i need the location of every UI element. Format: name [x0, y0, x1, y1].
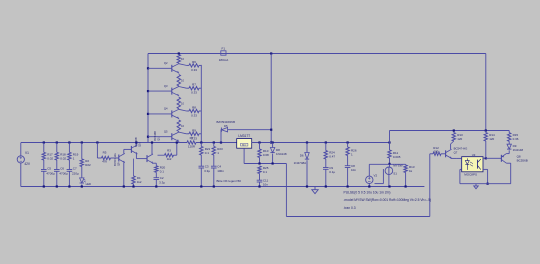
- wire R5 to Q9 base: [111, 157, 119, 159]
- wire LED bottom: [81, 184, 83, 186]
- svg-text:Q9: Q9: [117, 162, 121, 166]
- svg-text:Q5: Q5: [164, 130, 168, 134]
- wire ADJ down: [243, 148, 245, 163]
- node R3 rail: [176, 141, 178, 143]
- wire R3 tie: [176, 143, 178, 156]
- svg-text:Bitte OK legen=50: Bitte OK legen=50: [217, 179, 242, 183]
- svg-text:R6: R6: [192, 60, 196, 64]
- wire D5 to V-col: [228, 129, 272, 131]
- wire R22 top: [213, 143, 215, 147]
- node C7 gnd: [68, 185, 70, 187]
- node S1 gnd: [388, 185, 390, 187]
- wire R25-C11: [259, 174, 261, 181]
- node base 2: [147, 90, 149, 92]
- svg-text:0.68: 0.68: [263, 153, 269, 157]
- node C8 gnd: [347, 185, 349, 187]
- wire +rail left: [21, 142, 187, 144]
- svg-text:C2: C2: [160, 176, 164, 180]
- wire Q7 collector: [450, 144, 452, 149]
- svg-text:R9: R9: [192, 128, 196, 132]
- node LED gnd: [81, 185, 83, 187]
- wire R2-LED: [81, 167, 83, 178]
- node R19 top: [68, 141, 70, 143]
- wire D9-Q8: [508, 150, 510, 153]
- wire R17 top: [43, 143, 45, 153]
- resistor R13: [452, 133, 455, 141]
- wire Q10 collector: [135, 143, 137, 145]
- wire base Q5: [148, 136, 172, 138]
- resistor R5: [102, 156, 111, 159]
- wire Q10 to Q11 base: [136, 158, 147, 160]
- wire C5 bottom: [43, 171, 45, 186]
- capacitor C4: [211, 165, 217, 167]
- wire ctrl return h: [375, 183, 384, 185]
- wire R7 right: [199, 87, 201, 89]
- junction: [270, 52, 272, 54]
- svg-text:PULSE(0 5 0.5 10u 10u 1m 2m): PULSE(0 5 0.5 10u 10u 1m 2m): [344, 191, 391, 195]
- wire D8 top: [272, 143, 274, 148]
- wire R11-S1: [389, 158, 391, 167]
- wire R9 left: [186, 133, 189, 135]
- wire C6 bottom: [56, 171, 58, 186]
- wire to R20: [155, 163, 157, 166]
- transistor Q3: [171, 88, 173, 95]
- svg-text:0.33: 0.33: [191, 114, 197, 118]
- wire R26 top: [347, 143, 349, 148]
- svg-text:0.47: 0.47: [329, 155, 335, 159]
- transistor Q9: [118, 155, 120, 162]
- svg-text:D5: D5: [224, 124, 228, 128]
- wire Q10 emitter: [135, 154, 137, 159]
- svg-text:0.36: 0.36: [513, 137, 519, 141]
- wire R20-C2: [155, 172, 157, 177]
- wire C7 bottom: [68, 171, 70, 186]
- node opto emitter gnd: [487, 183, 489, 185]
- wire R14 bottom: [485, 141, 487, 158]
- capacitor C5: [41, 169, 47, 171]
- diode D8: [270, 148, 274, 153]
- wire R4 gnd: [133, 184, 135, 187]
- wire opto cathode: [460, 168, 462, 170]
- node V2 gnd: [368, 185, 370, 187]
- resistor R6: [189, 64, 199, 67]
- wire R18-C6: [56, 160, 58, 169]
- node Q10 collector: [135, 141, 137, 143]
- wire opto anode: [457, 157, 462, 159]
- resistor R7 120R inline: [187, 141, 196, 144]
- resistor R26: [346, 147, 349, 156]
- wire R24 top: [325, 143, 327, 151]
- wire to R4: [133, 159, 135, 176]
- svg-text:Q10: Q10: [138, 142, 142, 147]
- wire top +42V rail: [148, 53, 486, 55]
- wire S1 bottom: [388, 175, 390, 187]
- wire emitter stub Q2: [178, 72, 180, 75]
- resistor R7: [189, 87, 199, 90]
- capacitor C7: [67, 169, 73, 171]
- wire D5 up: [220, 130, 222, 143]
- wire base Q2: [148, 67, 172, 69]
- wire V2 top: [368, 164, 370, 176]
- wire R23 gnd: [405, 173, 407, 187]
- junction: [178, 52, 180, 54]
- node C11 gnd: [258, 185, 260, 187]
- wire C4 gnd: [213, 168, 215, 187]
- wire opto emitter down: [487, 169, 489, 183]
- node C2 gnd: [155, 185, 157, 187]
- wire +rail to U1: [196, 142, 237, 144]
- resistor R14: [484, 133, 487, 141]
- wire emitter stub Q5: [178, 140, 180, 143]
- wire R24-C9: [325, 159, 327, 167]
- diode D9: [507, 144, 511, 149]
- svg-text:10n: 10n: [351, 168, 356, 172]
- svg-text:1k: 1k: [409, 169, 413, 173]
- svg-text:3.3µ: 3.3µ: [159, 180, 165, 184]
- node D5 anode: [220, 141, 222, 143]
- wire emitter stub Q4: [178, 118, 180, 121]
- wire R21-C3: [200, 155, 202, 166]
- svg-text:.model MYSW SW(Ron=0.001 Roff=: .model MYSW SW(Ron=0.001 Roff=100Meg Vt=…: [344, 198, 432, 202]
- wire rail up corner: [389, 131, 391, 143]
- svg-text:120: 120: [457, 137, 462, 141]
- wire D8 bottom: [272, 154, 274, 164]
- node D6 top: [306, 141, 308, 143]
- node R21 top: [200, 141, 202, 143]
- wire Q9-Q10 link: [124, 148, 132, 150]
- resistor R15: [508, 133, 511, 142]
- wire to R5: [97, 157, 101, 159]
- svg-text:0.1: 0.1: [160, 170, 165, 174]
- node C8 col top: [347, 141, 349, 143]
- ground: [314, 187, 316, 190]
- wire top rail drop mid: [270, 54, 272, 143]
- svg-text:R3: R3: [167, 149, 171, 153]
- svg-text:0.1: 0.1: [205, 151, 210, 155]
- voltage source V2: [366, 176, 373, 183]
- node R2 top: [81, 141, 83, 143]
- svg-text:42V: 42V: [24, 162, 31, 166]
- capacitor C3: [199, 165, 205, 167]
- wire C8 gnd: [347, 168, 349, 187]
- wire feedback up: [429, 154, 431, 217]
- wire collector stub Q5: [178, 131, 180, 134]
- resistor R24: [324, 151, 327, 160]
- resistor R21: [200, 146, 203, 155]
- transistor Q8: [500, 155, 502, 162]
- node R13 top: [453, 129, 455, 131]
- wire Q11 emitter: [152, 162, 156, 164]
- wire R6 right: [199, 64, 201, 66]
- resistor R8: [189, 109, 199, 112]
- node C9 gnd: [325, 185, 327, 187]
- node D8 top: [272, 141, 274, 143]
- capacitor C9: [323, 167, 329, 169]
- wire R8 left: [186, 110, 189, 112]
- wire C9 gnd: [325, 169, 327, 186]
- wire Q11 collector: [151, 143, 153, 155]
- capacitor C6: [54, 169, 60, 171]
- svg-text:120: 120: [489, 137, 494, 141]
- svg-text:BC547-HG: BC547-HG: [113, 153, 117, 166]
- wire R19-C7: [68, 160, 70, 169]
- resistor R4: [132, 176, 135, 184]
- svg-text:Q4: Q4: [164, 107, 168, 111]
- svg-text:3.3µ: 3.3µ: [204, 169, 210, 173]
- wire ctrl to S1: [369, 163, 389, 165]
- wire feedback bottom: [286, 216, 429, 218]
- node R23 gnd: [405, 185, 407, 187]
- wire opto collector: [483, 157, 486, 159]
- resistor R3 1k2: [165, 154, 174, 157]
- wire opto emitter: [483, 168, 488, 170]
- svg-text:1N4148: 1N4148: [513, 148, 524, 152]
- svg-text:LM317T: LM317T: [238, 134, 250, 138]
- svg-text:1k2: 1k2: [137, 180, 142, 184]
- fuse F1: [221, 51, 226, 55]
- node base 3: [147, 113, 149, 115]
- svg-text:R22: R22: [85, 163, 91, 167]
- svg-text:F1: F1: [222, 46, 226, 50]
- capacitor C2: [154, 177, 160, 179]
- svg-text:220µ: 220µ: [72, 171, 79, 175]
- node R4 gnd: [132, 185, 134, 187]
- node R17 top: [43, 141, 45, 143]
- regulator U1 LM317: [237, 139, 252, 149]
- svg-text:0.005: 0.005: [393, 155, 401, 159]
- resistor R9: [189, 132, 199, 135]
- svg-text:ADJ: ADJ: [242, 144, 246, 147]
- svg-text:U3: U3: [472, 153, 476, 157]
- svg-text:C7: C7: [73, 166, 77, 170]
- wire R3 right: [174, 154, 177, 156]
- svg-text:4700µ: 4700µ: [46, 171, 55, 175]
- wire to R12: [430, 153, 433, 155]
- wire chain bottom: [178, 141, 180, 144]
- wire Q8 collector down: [510, 163, 512, 184]
- svg-text:0.02: 0.02: [60, 156, 66, 160]
- wire Q9 collector up: [123, 149, 125, 153]
- wire R15 top: [508, 131, 510, 133]
- svg-text:1k2: 1k2: [167, 157, 172, 161]
- transistor Q4: [171, 110, 173, 117]
- svg-text:4700µ: 4700µ: [59, 171, 68, 175]
- wire emitter stub Q3: [178, 95, 180, 98]
- resistor R18: [55, 152, 58, 160]
- switch S1: [385, 167, 393, 175]
- wire base Q3: [148, 90, 172, 92]
- wire R7 left: [186, 87, 189, 89]
- wire C3 gnd: [200, 168, 202, 187]
- wire R23 top: [405, 163, 407, 166]
- wire right gnd net: [460, 183, 511, 185]
- transistor Q10: [130, 146, 132, 153]
- resistor R17: [42, 152, 45, 160]
- resistor R13 1k: [404, 165, 407, 173]
- zener D6: [305, 153, 309, 160]
- svg-text:10: 10: [181, 101, 184, 105]
- svg-text:S1: S1: [393, 171, 397, 175]
- svg-text:V2: V2: [374, 174, 378, 178]
- wire right feed rail: [390, 130, 510, 132]
- wire to R3: [158, 154, 165, 156]
- node mid drop: [270, 141, 272, 143]
- svg-text:BC556B: BC556B: [517, 159, 528, 163]
- node C3 gnd: [200, 185, 202, 187]
- svg-text:120R: 120R: [188, 145, 196, 149]
- svg-text:LED: LED: [86, 182, 91, 186]
- node right feed: [485, 129, 487, 131]
- node D6 gnd: [306, 185, 308, 187]
- node base 1: [147, 67, 149, 69]
- wire V1 top: [20, 143, 22, 156]
- node R18 top: [56, 141, 58, 143]
- resistor R10: [258, 149, 261, 158]
- wire feedback down: [285, 164, 287, 217]
- wire to Q8 base: [486, 157, 502, 159]
- wire R22-C4: [213, 155, 215, 166]
- resistor R20: [155, 166, 158, 173]
- wire D6 gnd: [306, 160, 308, 186]
- node R24 top: [325, 141, 327, 143]
- wire to R8: [179, 109, 187, 111]
- svg-text:MOC8PS: MOC8PS: [464, 173, 477, 177]
- node C5 gnd: [43, 185, 45, 187]
- svg-text:0.33: 0.33: [191, 68, 197, 72]
- svg-text:0.02: 0.02: [47, 156, 53, 160]
- svg-text:10: 10: [181, 57, 184, 61]
- svg-text:1N4148: 1N4148: [276, 152, 287, 156]
- svg-text:Q7: Q7: [454, 151, 458, 155]
- wire R15-D9: [508, 141, 510, 144]
- wire R12 to Q7: [441, 153, 446, 155]
- wire to R13: [451, 141, 454, 144]
- resistor R11: [388, 150, 391, 158]
- capacitor C8: [345, 165, 351, 167]
- node R10-adj: [258, 162, 260, 164]
- resistor chain 2: [177, 75, 180, 86]
- wire R9 right: [199, 133, 201, 135]
- wire R26-C8: [347, 156, 349, 166]
- node R22 top: [213, 141, 215, 143]
- wire R14 top: [485, 131, 487, 133]
- diode D5: [221, 128, 227, 132]
- wire ground rail: [21, 186, 425, 188]
- node C6 gnd: [56, 185, 58, 187]
- node R5 top: [96, 141, 98, 143]
- wire V2 bottom: [368, 184, 370, 187]
- wire R6 left: [186, 64, 189, 66]
- LED D2: [80, 178, 84, 183]
- svg-text:D6: D6: [300, 153, 304, 157]
- svg-text:BC546B: BC546B: [153, 131, 157, 141]
- wire D6 top: [306, 143, 308, 153]
- transistor Q5: [171, 133, 173, 140]
- svg-text:47k: 47k: [102, 160, 107, 164]
- svg-text:10: 10: [181, 124, 184, 128]
- svg-text:Q3: Q3: [164, 84, 168, 88]
- wire R10 bottom: [259, 158, 261, 164]
- svg-text:C6: C6: [60, 166, 64, 170]
- transistor Q7: [445, 150, 447, 157]
- capacitor C11: [257, 179, 263, 181]
- wire R5 drop: [96, 143, 98, 159]
- transistor Q11: [146, 155, 148, 162]
- svg-text:R8: R8: [192, 106, 196, 110]
- wire ladder base rail: [147, 54, 149, 143]
- wire R8 right: [199, 110, 201, 112]
- wire V1 bottom: [20, 163, 22, 187]
- wire R10 top: [259, 143, 261, 150]
- wire output rail: [252, 142, 390, 144]
- node C4 gnd: [213, 185, 215, 187]
- node Q11 collector: [151, 141, 153, 143]
- svg-text:10: 10: [181, 79, 184, 83]
- wire R21 top: [200, 143, 202, 147]
- wire ctrl to R23: [390, 163, 406, 165]
- ground right: [475, 184, 477, 186]
- wire R17-C5: [43, 160, 45, 169]
- optocoupler U3: [462, 157, 483, 172]
- node opto collector: [485, 157, 487, 159]
- wire top rail right drop: [485, 54, 487, 131]
- svg-text:180: 180: [434, 149, 439, 153]
- svg-text:C5: C5: [47, 166, 51, 170]
- node R10 top: [258, 141, 260, 143]
- transistor Q2: [171, 65, 173, 72]
- svg-text:1N4748A: 1N4748A: [294, 161, 307, 165]
- node base 4: [147, 136, 149, 138]
- wire C11 gnd: [259, 182, 261, 187]
- resistor R22: [212, 146, 215, 155]
- wire collector stub Q4: [178, 108, 180, 111]
- wire collector stub Q2: [178, 62, 180, 65]
- wire R13 top: [453, 131, 455, 133]
- wire Q8 emitter: [506, 153, 509, 155]
- svg-text:R7: R7: [190, 136, 194, 140]
- resistor R19: [68, 152, 71, 160]
- wire ADJ node: [244, 163, 286, 165]
- voltage source V1: [17, 156, 24, 163]
- svg-text:R5: R5: [103, 151, 107, 155]
- wire R11 top: [389, 143, 391, 151]
- resistor chain 1: [177, 55, 180, 64]
- node Q9 emitter gnd: [123, 185, 125, 187]
- svg-text:10n: 10n: [263, 182, 268, 186]
- svg-text:.tran 0.3: .tran 0.3: [344, 206, 356, 210]
- node D5 cathode: [270, 129, 272, 131]
- wire ladder emitter rail: [200, 65, 202, 143]
- svg-text:R7: R7: [192, 83, 196, 87]
- wire base Q4: [148, 113, 172, 115]
- wire R18 top: [56, 143, 58, 153]
- wire collector stub Q3: [178, 85, 180, 88]
- wire to R7: [179, 87, 187, 89]
- resistor chain 4: [177, 120, 180, 131]
- wire Q7 emitter: [451, 157, 457, 159]
- resistor R12: [433, 152, 441, 155]
- node D8-adj: [272, 162, 274, 164]
- svg-text:0.1µ: 0.1µ: [329, 170, 335, 174]
- wire ctrl return v: [382, 169, 384, 184]
- svg-text:V1: V1: [25, 151, 29, 155]
- wire C2 gnd: [155, 180, 157, 187]
- resistor chain 3: [177, 97, 180, 108]
- svg-text:0.33: 0.33: [191, 91, 197, 95]
- svg-text:Q1: Q1: [156, 137, 160, 141]
- wire R19 top: [68, 143, 70, 153]
- svg-text:100n: 100n: [217, 169, 224, 173]
